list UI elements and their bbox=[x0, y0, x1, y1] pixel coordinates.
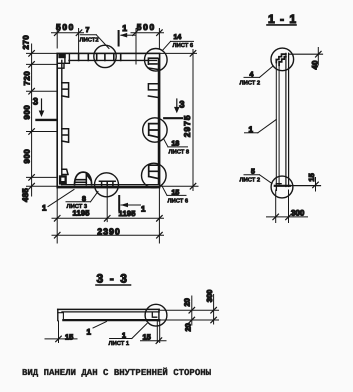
svg-text:ЛИСТ 6: ЛИСТ 6 bbox=[173, 42, 194, 49]
bottom dim 1195 ticks bbox=[54, 216, 162, 222]
svg-text:14: 14 bbox=[174, 34, 182, 41]
svg-text:500: 500 bbox=[56, 22, 75, 32]
svg-text:900: 900 bbox=[23, 105, 32, 120]
svg-text:7: 7 bbox=[86, 27, 90, 34]
tab bottom (in circle 8) with stem bbox=[99, 181, 115, 221]
section marker 1 top bbox=[119, 23, 135, 46]
section marker 3 right bbox=[164, 99, 184, 118]
svg-text:2975: 2975 bbox=[182, 114, 192, 137]
label 18 / ЛИСТ 8 bbox=[164, 140, 190, 156]
svg-text:900: 900 bbox=[23, 149, 32, 164]
bottom dims extension lines bbox=[57, 188, 159, 243]
svg-text:40: 40 bbox=[310, 60, 319, 69]
tab left T3 bbox=[62, 129, 69, 142]
svg-text:15: 15 bbox=[307, 173, 316, 181]
tab top (in circle 7) bbox=[79, 54, 121, 60]
svg-text:300: 300 bbox=[291, 208, 305, 217]
1-1 dim 15 bbox=[290, 173, 321, 191]
1-1 dim 300 bbox=[267, 190, 308, 223]
svg-text:3: 3 bbox=[33, 96, 38, 107]
top dim line 500 right bbox=[131, 32, 164, 34]
svg-text:485: 485 bbox=[21, 188, 30, 202]
section marker 3 left bbox=[33, 96, 56, 120]
svg-text:1195: 1195 bbox=[119, 209, 136, 218]
label 7 / ЛИСТ2 bbox=[80, 27, 110, 48]
svg-text:720: 720 bbox=[23, 71, 32, 86]
left dim ticks bbox=[29, 51, 35, 189]
right dim 2975 line bbox=[192, 50, 194, 191]
svg-text:ЛИСТ 2: ЛИСТ 2 bbox=[240, 177, 261, 184]
svg-text:15: 15 bbox=[143, 332, 151, 341]
left dim extension lines bbox=[27, 53, 58, 186]
label 15 / ЛИСТ 6 bbox=[162, 186, 189, 204]
svg-text:ЛИСТ 8: ЛИСТ 8 bbox=[169, 149, 190, 156]
panel outer outline bbox=[57, 53, 159, 187]
tab left T4 bbox=[59, 169, 68, 184]
detail circle 14 bbox=[145, 49, 168, 72]
detail circle 7 bbox=[94, 45, 116, 67]
1-1 label 4 / ЛИСТ 2 bbox=[240, 67, 273, 87]
3-3 dim 15 right bbox=[141, 321, 167, 344]
1-1 top detail circle bbox=[271, 48, 294, 71]
label 14 / ЛИСТ 6 top right bbox=[163, 34, 194, 50]
1-1 dim 40 bbox=[289, 48, 323, 70]
svg-text:ЛИСТ 1: ЛИСТ 1 bbox=[109, 340, 130, 347]
detail circle 15 bbox=[142, 163, 167, 188]
bottom dim line 1195 bbox=[52, 217, 164, 219]
1-1 bottom detail circle bbox=[271, 176, 293, 198]
top dim line 500 left bbox=[52, 32, 84, 34]
svg-text:500: 500 bbox=[137, 22, 156, 32]
3-3 label 1 / ЛИСТ 1 bbox=[109, 324, 148, 347]
1-1 bar left double line bbox=[276, 63, 279, 186]
tab right in circle 14 bbox=[148, 58, 157, 69]
1-1 label 5 / ЛИСТ 2 bbox=[240, 169, 273, 184]
detail circle 18 bbox=[143, 118, 167, 142]
svg-text:15: 15 bbox=[65, 333, 73, 342]
svg-text:ЛИСТ 6: ЛИСТ 6 bbox=[168, 197, 189, 204]
svg-text:270: 270 bbox=[22, 35, 31, 50]
tab top-left corner bbox=[58, 54, 69, 68]
svg-text:1195: 1195 bbox=[73, 208, 90, 217]
svg-text:20: 20 bbox=[182, 298, 191, 306]
svg-text:3 - 3: 3 - 3 bbox=[97, 272, 129, 286]
tab right T2 bbox=[148, 84, 157, 98]
svg-text:ЛИСТ 2: ЛИСТ 2 bbox=[240, 79, 261, 86]
svg-text:1: 1 bbox=[87, 328, 92, 337]
svg-text:3: 3 bbox=[179, 99, 184, 110]
svg-text:ВИД ПАНЕЛИ ДАН С ВНУТРЕННЕЙ СТ: ВИД ПАНЕЛИ ДАН С ВНУТРЕННЕЙ СТОРОНЫ bbox=[22, 367, 212, 378]
3-3 right extensions bbox=[160, 310, 219, 320]
tab right in circle 15 bbox=[149, 165, 158, 178]
top dim extension lines bbox=[57, 29, 159, 65]
3-3 dim 15 left bbox=[45, 321, 77, 343]
svg-text:1 - 1: 1 - 1 bbox=[268, 12, 297, 26]
svg-text:1: 1 bbox=[141, 204, 146, 213]
bottom dim 2390 ticks bbox=[54, 232, 162, 238]
section marker 1 bottom bbox=[119, 196, 146, 213]
label 8 / ЛИСТ 3 bbox=[66, 192, 98, 211]
bottom dim line 2390 bbox=[52, 234, 164, 236]
tab right in circle 18 bbox=[149, 124, 158, 138]
svg-text:2390: 2390 bbox=[97, 226, 121, 236]
label 1 bottom-left bbox=[42, 190, 74, 213]
detail circle 8 bbox=[95, 173, 119, 197]
3-3 dim 20/20 line bbox=[182, 296, 194, 332]
title 1-1 bbox=[267, 12, 297, 26]
3-3 dim 300 line bbox=[205, 290, 217, 324]
left dim line bbox=[31, 44, 33, 196]
top dim ticks bbox=[54, 30, 162, 36]
1-1 bottom joint bbox=[275, 184, 290, 191]
1-1 top step joint bbox=[276, 54, 286, 65]
svg-text:300: 300 bbox=[205, 290, 214, 303]
arch detail bottom-left bbox=[75, 172, 92, 185]
title 3-3 bbox=[96, 272, 131, 286]
svg-text:1: 1 bbox=[122, 23, 127, 33]
panel inner outline bbox=[69, 59, 157, 61]
svg-text:20: 20 bbox=[184, 323, 193, 331]
right dim ticks bbox=[190, 51, 196, 189]
1-1 label 1 bbox=[245, 120, 277, 135]
1-1 bar right double line bbox=[286, 53, 289, 186]
3-3 bar bbox=[58, 309, 160, 321]
svg-text:ЛИСТ2: ЛИСТ2 bbox=[80, 36, 99, 43]
3-3 detail circle bbox=[145, 304, 167, 326]
svg-text:1: 1 bbox=[42, 203, 47, 212]
3-3 label 1 plain bbox=[87, 322, 107, 337]
tab left T2 bbox=[62, 83, 69, 97]
right dim 2975 extension lines bbox=[160, 53, 198, 186]
